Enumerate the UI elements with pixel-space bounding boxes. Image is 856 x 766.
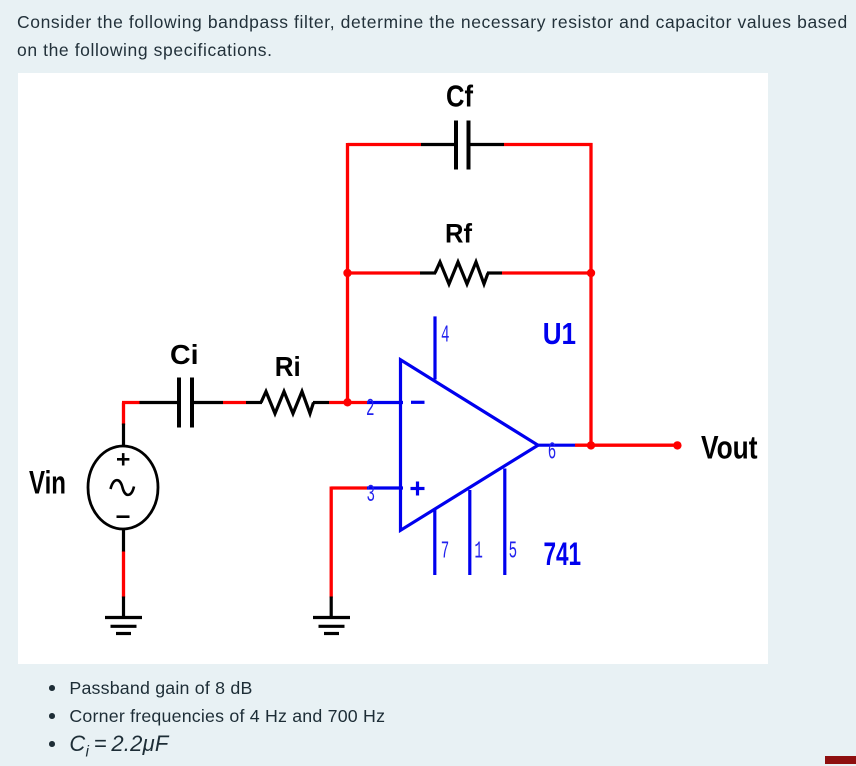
svg-text:Ri: Ri	[275, 351, 301, 382]
resistor Rf	[420, 262, 502, 284]
wire: output	[575, 443, 677, 446]
svg-text:Cf: Cf	[446, 78, 474, 113]
pin number 7	[441, 538, 450, 565]
ground (pin 3)	[313, 596, 350, 633]
pin 6 output lead	[536, 443, 575, 446]
source Vin	[88, 423, 158, 552]
junction: output / right rail	[587, 441, 595, 449]
label Cf	[446, 78, 474, 113]
pin number 1	[474, 538, 483, 565]
wire: top loop right segment (Cf to right rail)	[504, 142, 593, 145]
label 741	[544, 536, 582, 572]
pin number 4	[441, 322, 450, 349]
pin number 3	[367, 482, 376, 509]
svg-text:3: 3	[367, 482, 376, 509]
wire: between Ci and Ri	[223, 400, 246, 403]
wire: Ri to inverting node	[329, 400, 367, 403]
pin number 2	[366, 396, 375, 423]
junction: right rail / Rf	[587, 268, 595, 276]
wire: right feedback rail	[589, 143, 592, 445]
capacitor Ci	[140, 377, 224, 427]
title text	[17, 8, 856, 64]
label Ci	[170, 338, 199, 369]
junction: left rail / Rf	[343, 268, 351, 276]
label Vout	[701, 429, 758, 465]
wire: top loop left segment (node to Cf)	[348, 142, 422, 145]
label Rf	[445, 218, 473, 248]
svg-text:U1: U1	[543, 317, 576, 351]
pin 5 lead	[503, 468, 506, 575]
wire: non-inverting drop to ground	[330, 486, 333, 597]
pin 7 lead	[433, 510, 436, 575]
wire: Rf row left	[348, 271, 421, 274]
node: Vout terminal	[673, 441, 681, 449]
bottom-right red bar	[825, 756, 856, 764]
pin 2 lead	[367, 400, 403, 403]
label Ri	[275, 351, 301, 382]
svg-text:Vin: Vin	[29, 464, 66, 500]
label Vin	[29, 464, 66, 500]
resistor Ri	[246, 391, 329, 413]
capacitor Cf	[421, 120, 504, 169]
wire: Rf row right	[502, 271, 591, 274]
op-amp U1	[401, 359, 539, 530]
svg-text:6: 6	[548, 439, 557, 466]
wire: Vin top to input row	[122, 402, 125, 425]
pin 1 lead	[468, 490, 471, 575]
junction: inverting input node	[343, 398, 351, 406]
pin 4 lead	[433, 316, 436, 379]
wire: Vin to ground	[122, 551, 125, 597]
wire: non-inverting row	[331, 486, 367, 489]
wire: input row from Vin	[122, 400, 140, 403]
svg-text:1: 1	[474, 538, 483, 565]
specification bullets	[0, 674, 856, 766]
svg-text:4: 4	[441, 322, 450, 349]
ground (Vin)	[105, 596, 142, 633]
svg-text:741: 741	[544, 536, 582, 572]
pin 3 lead	[367, 486, 403, 489]
label U1	[543, 317, 576, 351]
svg-text:Ci: Ci	[170, 338, 199, 369]
pin number 6	[548, 439, 557, 466]
svg-text:7: 7	[441, 538, 450, 565]
white schematic panel	[18, 73, 768, 664]
svg-text:Vout: Vout	[701, 429, 758, 465]
svg-text:2: 2	[366, 396, 375, 423]
svg-text:Rf: Rf	[445, 218, 473, 248]
pin number 5	[509, 538, 517, 565]
wire: left feedback rail	[346, 143, 349, 403]
svg-text:5: 5	[509, 538, 517, 565]
